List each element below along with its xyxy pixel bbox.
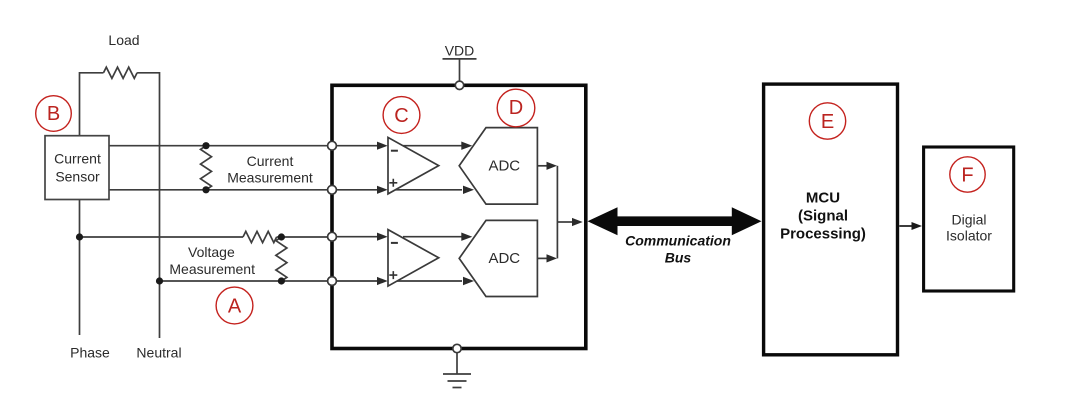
svg-text:D: D: [509, 97, 523, 119]
svg-text:Phase: Phase: [70, 345, 110, 361]
svg-text:Current: Current: [247, 153, 294, 169]
svg-text:Load: Load: [108, 32, 139, 48]
svg-text:ADC: ADC: [488, 157, 520, 174]
svg-text:Communication: Communication: [625, 232, 731, 248]
svg-text:Bus: Bus: [665, 250, 692, 266]
svg-text:Voltage: Voltage: [188, 244, 235, 260]
svg-text:F: F: [961, 165, 973, 187]
svg-text:A: A: [228, 295, 242, 317]
svg-text:Measurement: Measurement: [169, 261, 255, 277]
svg-text:Measurement: Measurement: [227, 170, 313, 186]
svg-text:(Signal: (Signal: [798, 207, 848, 224]
svg-text:Processing): Processing): [780, 226, 866, 243]
svg-text:Sensor: Sensor: [55, 169, 100, 185]
svg-text:MCU: MCU: [806, 189, 840, 206]
svg-text:B: B: [47, 103, 60, 125]
svg-text:Current: Current: [54, 151, 101, 167]
svg-text:Digial: Digial: [951, 212, 986, 228]
svg-text:Neutral: Neutral: [136, 345, 181, 361]
svg-text:Isolator: Isolator: [946, 227, 992, 243]
svg-text:ADC: ADC: [488, 250, 520, 267]
svg-text:E: E: [821, 111, 834, 133]
svg-text:C: C: [394, 105, 408, 127]
svg-text:VDD: VDD: [445, 43, 475, 59]
